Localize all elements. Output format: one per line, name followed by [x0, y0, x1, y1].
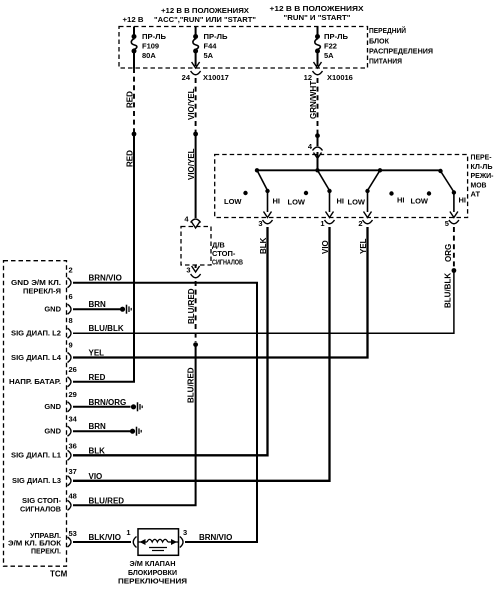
wire BRN/VIO from TCM pin 2 to solenoid pin 3: [73, 283, 257, 542]
svg-text:ПЕРЕКЛ-Я: ПЕРЕКЛ-Я: [23, 287, 61, 296]
connector X10017 pin 24: [182, 62, 229, 82]
wire GRN/WHT dashed segment: [317, 78, 319, 134]
wire BLU/BLK to TCM pin 8: [73, 272, 454, 333]
switch SW3 (pin 2): [348, 168, 405, 217]
svg-text:ПР-ЛЬ: ПР-ЛЬ: [204, 32, 229, 41]
svg-text:BRN/VIO: BRN/VIO: [199, 533, 232, 542]
svg-text:TCM: TCM: [50, 570, 68, 579]
svg-text:12: 12: [304, 73, 312, 82]
svg-text:GRN/WHT: GRN/WHT: [309, 81, 318, 119]
bus wire inside mode switch: [257, 169, 441, 171]
svg-text:LOW: LOW: [411, 197, 429, 206]
svg-text:F22: F22: [324, 42, 337, 51]
svg-text:МОВ: МОВ: [471, 180, 488, 189]
connector solenoid pin 1: [133, 537, 136, 548]
svg-text:+12 В: +12 В: [123, 15, 145, 24]
svg-text:СИГНАЛОВ: СИГНАЛОВ: [20, 505, 62, 514]
svg-text:BRN/ORG: BRN/ORG: [89, 398, 127, 407]
splice node on GRN/WHT: [315, 133, 320, 138]
wire VIO/YEL dashed segment: [195, 78, 197, 133]
wire GRN/WHT solid segment to mode switch pin 4: [317, 137, 319, 146]
svg-text:+12 В В ПОЛОЖЕНИЯХ: +12 В В ПОЛОЖЕНИЯХ: [161, 6, 249, 15]
svg-text:HI: HI: [397, 196, 405, 205]
solenoid coil: [138, 539, 178, 551]
svg-text:НАПР. БАТАР.: НАПР. БАТАР.: [9, 377, 61, 386]
wire RED dashed segment: [133, 68, 135, 133]
svg-text:26: 26: [69, 365, 77, 374]
connector solenoid pin 3: [180, 537, 183, 548]
svg-text:ORG: ORG: [444, 244, 453, 262]
svg-text:3: 3: [258, 219, 262, 228]
svg-text:"RUN" И "START": "RUN" И "START": [284, 13, 351, 22]
svg-text:YEL: YEL: [89, 349, 105, 358]
wire BLK from mode pin 3 to TCM pin 36: [73, 227, 268, 455]
svg-text:РАСПРЕДЕЛЕНИЯ: РАСПРЕДЕЛЕНИЯ: [369, 47, 433, 56]
svg-text:2: 2: [358, 219, 362, 228]
svg-text:3: 3: [183, 528, 187, 537]
svg-text:37: 37: [69, 467, 77, 476]
svg-text:9: 9: [69, 341, 73, 350]
svg-text:BLU/RED: BLU/RED: [89, 496, 125, 505]
ground G2: [131, 402, 142, 411]
svg-text:SIG ДИАП. L2: SIG ДИАП. L2: [11, 329, 61, 338]
wire VIO from mode pin 1 to TCM pin 37: [73, 227, 330, 481]
svg-text:29: 29: [69, 390, 77, 399]
svg-text:34: 34: [69, 415, 78, 424]
svg-text:GND: GND: [44, 305, 61, 314]
svg-text:6: 6: [69, 292, 73, 301]
connector X10016 pin 12: [304, 62, 353, 82]
svg-text:YEL: YEL: [359, 238, 368, 254]
stoplight switch box (dashed): [181, 227, 211, 266]
svg-text:BRN: BRN: [89, 422, 107, 431]
svg-text:1: 1: [320, 219, 324, 228]
svg-text:1: 1: [126, 528, 130, 537]
svg-text:LOW: LOW: [288, 198, 306, 207]
svg-text:SIG ДИАП. L1: SIG ДИАП. L1: [11, 451, 61, 460]
splice node on VIO/YEL: [193, 132, 198, 137]
wire BLK/VIO from TCM pin 53 to solenoid pin 1: [73, 541, 131, 543]
svg-text:5A: 5A: [204, 51, 214, 60]
switch SW2 (pin 1): [288, 168, 345, 217]
TCM box (dashed): [4, 261, 67, 567]
mode switch box (dashed): [215, 155, 468, 218]
svg-text:БЛОК: БЛОК: [369, 37, 389, 46]
svg-text:HI: HI: [273, 197, 281, 206]
svg-text:LOW: LOW: [348, 198, 366, 207]
svg-text:3: 3: [186, 266, 190, 275]
svg-text:СИГНАЛОВ: СИГНАЛОВ: [212, 258, 243, 267]
svg-text:2: 2: [69, 266, 73, 275]
splice node on RED: [132, 132, 137, 137]
connector mode switch pin 4: [308, 142, 323, 170]
wire ORG dashed from mode pin 5: [453, 227, 455, 268]
svg-text:+12 В В ПОЛОЖЕНИЯХ: +12 В В ПОЛОЖЕНИЯХ: [270, 4, 364, 13]
svg-text:RED: RED: [126, 150, 135, 167]
svg-text:ПЕРЕДНИЙ: ПЕРЕДНИЙ: [369, 26, 406, 35]
svg-text:F109: F109: [142, 42, 159, 51]
wire BLU/RED solid to TCM pin 48: [73, 346, 196, 505]
wire BLU/RED dashed from stoplight pin 3: [195, 281, 197, 342]
svg-text:BLK/VIO: BLK/VIO: [89, 533, 121, 542]
wire BRN/ORG from TCM pin 29 to ground: [73, 406, 131, 408]
wire BRN from TCM pin 6 to ground: [73, 308, 120, 310]
svg-text:36: 36: [69, 442, 77, 451]
connector stoplight pin 3: [186, 265, 200, 278]
svg-text:X10017: X10017: [203, 73, 229, 82]
svg-text:Э/М КЛАПАН: Э/М КЛАПАН: [130, 559, 176, 568]
switch SW4 (pin 5): [411, 169, 467, 218]
svg-text:80A: 80A: [142, 51, 156, 60]
fuse F22 5A: [315, 27, 349, 67]
svg-text:HI: HI: [459, 196, 467, 205]
svg-text:КЛ-ЛЬ: КЛ-ЛЬ: [471, 162, 494, 171]
svg-text:HI: HI: [337, 197, 345, 206]
svg-text:BRN: BRN: [89, 300, 107, 309]
svg-text:GND: GND: [44, 402, 61, 411]
svg-text:ПР-ЛЬ: ПР-ЛЬ: [324, 32, 349, 41]
wire VIO/YEL solid segment to stoplight switch: [195, 136, 197, 218]
svg-text:АТ: АТ: [471, 190, 481, 199]
svg-text:ПР-ЛЬ: ПР-ЛЬ: [142, 32, 167, 41]
svg-text:BLU/RED: BLU/RED: [187, 288, 196, 324]
svg-text:SIG ДИАП. L3: SIG ДИАП. L3: [12, 476, 61, 485]
fuse F109 80A: [131, 27, 166, 69]
shift-lock solenoid valve box: [138, 529, 179, 556]
splice node ORG/BLUBLK: [452, 268, 457, 273]
svg-text:RED: RED: [126, 91, 135, 108]
splice node BLU/RED: [193, 342, 198, 347]
svg-text:24: 24: [182, 73, 191, 82]
svg-text:53: 53: [69, 529, 77, 538]
svg-text:RED: RED: [89, 373, 106, 382]
svg-text:BLK: BLK: [259, 237, 268, 254]
svg-text:48: 48: [69, 492, 77, 501]
svg-text:5A: 5A: [324, 51, 334, 60]
connector stoplight pin 4: [184, 215, 200, 229]
svg-text:VIO/YEL: VIO/YEL: [187, 148, 196, 180]
svg-text:5: 5: [445, 219, 449, 228]
svg-text:ПЕРЕКЛЮЧЕНИЯ: ПЕРЕКЛЮЧЕНИЯ: [118, 577, 187, 586]
wire RED solid segment down to TCM pin 26: [73, 136, 134, 382]
power distribution box (dashed): [119, 27, 368, 69]
svg-text:"ACC","RUN" ИЛИ "START": "ACC","RUN" ИЛИ "START": [154, 15, 256, 24]
svg-text:ПЕРЕКЛ.: ПЕРЕКЛ.: [31, 547, 61, 556]
wire YEL from mode pin 2 to TCM pin 9: [73, 227, 368, 358]
svg-text:ПЕРЕ-: ПЕРЕ-: [471, 153, 492, 162]
svg-text:F44: F44: [204, 42, 218, 51]
svg-text:БЛОКИРОВКИ: БЛОКИРОВКИ: [128, 568, 177, 577]
svg-text:BRN/VIO: BRN/VIO: [89, 274, 122, 283]
svg-text:X10016: X10016: [327, 73, 353, 82]
ground G1: [120, 305, 131, 314]
fuse F44 5A: [193, 27, 228, 67]
svg-text:VIO: VIO: [321, 240, 330, 254]
svg-text:BLU/BLK: BLU/BLK: [89, 324, 124, 333]
svg-text:BLU/BLK: BLU/BLK: [444, 273, 453, 308]
wire BRN from TCM pin 34 to ground: [73, 430, 130, 432]
svg-text:РЕЖИ-: РЕЖИ-: [471, 171, 494, 180]
switch SW1 (pin 3): [224, 168, 280, 217]
svg-text:VIO/YEL: VIO/YEL: [187, 88, 196, 120]
svg-text:GND: GND: [44, 427, 61, 436]
svg-text:LOW: LOW: [224, 197, 242, 206]
svg-text:8: 8: [69, 316, 73, 325]
svg-text:BLK: BLK: [89, 446, 106, 455]
svg-text:SIG ДИАП. L4: SIG ДИАП. L4: [11, 353, 62, 362]
ground G3: [130, 427, 141, 436]
svg-text:ПИТАНИЯ: ПИТАНИЯ: [369, 57, 402, 66]
svg-text:VIO: VIO: [89, 472, 103, 481]
svg-text:BLU/RED: BLU/RED: [187, 367, 196, 403]
